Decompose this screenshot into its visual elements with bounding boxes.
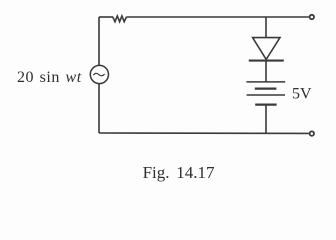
wire battery to bottom rail	[265, 105, 267, 134]
wire top horizontal to right terminal	[126, 16, 308, 18]
battery B1 plate short bottom	[255, 103, 276, 105]
source V1 sine symbol	[93, 73, 104, 75]
resistor R (zigzag)	[113, 16, 127, 22]
wire diode to battery	[265, 61, 267, 82]
source V1: AC source circle 20 sin wt	[90, 65, 108, 83]
wire left vertical (source top lead)	[98, 17, 100, 66]
node: top-right open terminal	[310, 15, 314, 19]
battery B1 plate long lower	[247, 94, 285, 96]
diode D1 cathode bar	[249, 60, 284, 62]
diode D1 triangle	[253, 38, 280, 60]
battery B1 plate short	[255, 87, 277, 89]
svg-text:Fig.14.17: Fig.14.17	[143, 163, 215, 182]
wire diode branch top (junction to diode)	[265, 17, 267, 38]
node: bottom-right open terminal	[310, 131, 314, 135]
wire bottom horizontal	[99, 132, 309, 134]
battery B1 plate long top	[246, 81, 285, 83]
wire top-left horizontal segment	[99, 16, 113, 18]
wire left vertical (source bottom lead)	[98, 84, 100, 133]
svg-text:5V: 5V	[292, 86, 312, 103]
svg-text:20 sin wt: 20 sin wt	[17, 69, 82, 86]
